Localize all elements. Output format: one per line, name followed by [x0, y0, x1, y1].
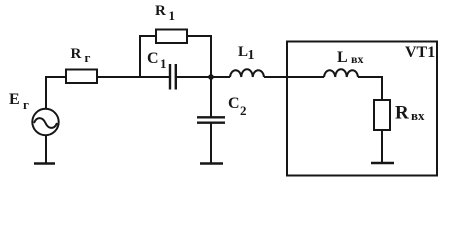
wire: L1 to Lвх (crosses VT1 box edge)	[264, 76, 324, 78]
svg-text:C: C	[228, 95, 240, 112]
wire: C1 to node	[177, 76, 211, 78]
source Eг (AC sine source)	[32, 109, 58, 135]
wire: source bottom lead	[45, 136, 47, 164]
svg-text:1: 1	[160, 56, 167, 71]
box VT1 (transistor input equivalent circuit)	[287, 42, 437, 176]
resistor Rвх	[374, 100, 390, 130]
wire: Rг to C1 left plate	[97, 76, 169, 78]
svg-text:Е: Е	[9, 91, 20, 108]
svg-text:R: R	[71, 46, 82, 62]
wire: R1 branch right leg	[187, 36, 211, 77]
ground (under C2)	[200, 162, 223, 165]
svg-text:1: 1	[169, 8, 176, 23]
svg-text:г: г	[23, 97, 29, 112]
wire: Rвх bottom lead	[381, 130, 383, 163]
node (junction dot)	[208, 74, 214, 80]
label L1	[238, 44, 255, 63]
wire: main rail, source corner to Rг	[45, 76, 66, 78]
label Rвх	[395, 103, 425, 124]
inductor Lвх	[324, 69, 358, 77]
resistor R1	[156, 30, 187, 44]
label C2	[228, 95, 247, 118]
svg-text:C: C	[147, 50, 159, 67]
wire: node to L1	[211, 76, 230, 78]
ground (under Rвх)	[371, 162, 394, 165]
ground (under Eг)	[34, 162, 55, 165]
wire: Lвх to Rвх corner	[358, 77, 382, 100]
label C1	[147, 50, 167, 71]
wire: C2 bottom lead	[210, 123, 212, 164]
svg-text:L: L	[238, 44, 248, 60]
inductor L1	[230, 69, 264, 77]
label Rг	[71, 46, 91, 65]
svg-text:R: R	[395, 103, 409, 124]
svg-text:R: R	[155, 3, 166, 19]
svg-text:VT1: VT1	[405, 44, 435, 61]
svg-text:г: г	[85, 50, 91, 65]
capacitor C1	[170, 64, 176, 90]
wire: source top lead from Eг up to main rail	[45, 77, 47, 109]
svg-text:2: 2	[240, 103, 247, 118]
svg-text:вх: вх	[411, 108, 425, 123]
label Eг	[9, 91, 29, 112]
wire: R1 branch left leg	[140, 36, 156, 77]
resistor Rг	[66, 70, 97, 84]
capacitor C2	[197, 117, 225, 122]
svg-text:вх: вх	[351, 52, 363, 66]
svg-text:L: L	[337, 49, 348, 66]
svg-text:1: 1	[248, 48, 255, 63]
label Lвх	[337, 49, 363, 66]
label R1	[155, 3, 175, 23]
wire: C2 top lead	[210, 77, 212, 117]
